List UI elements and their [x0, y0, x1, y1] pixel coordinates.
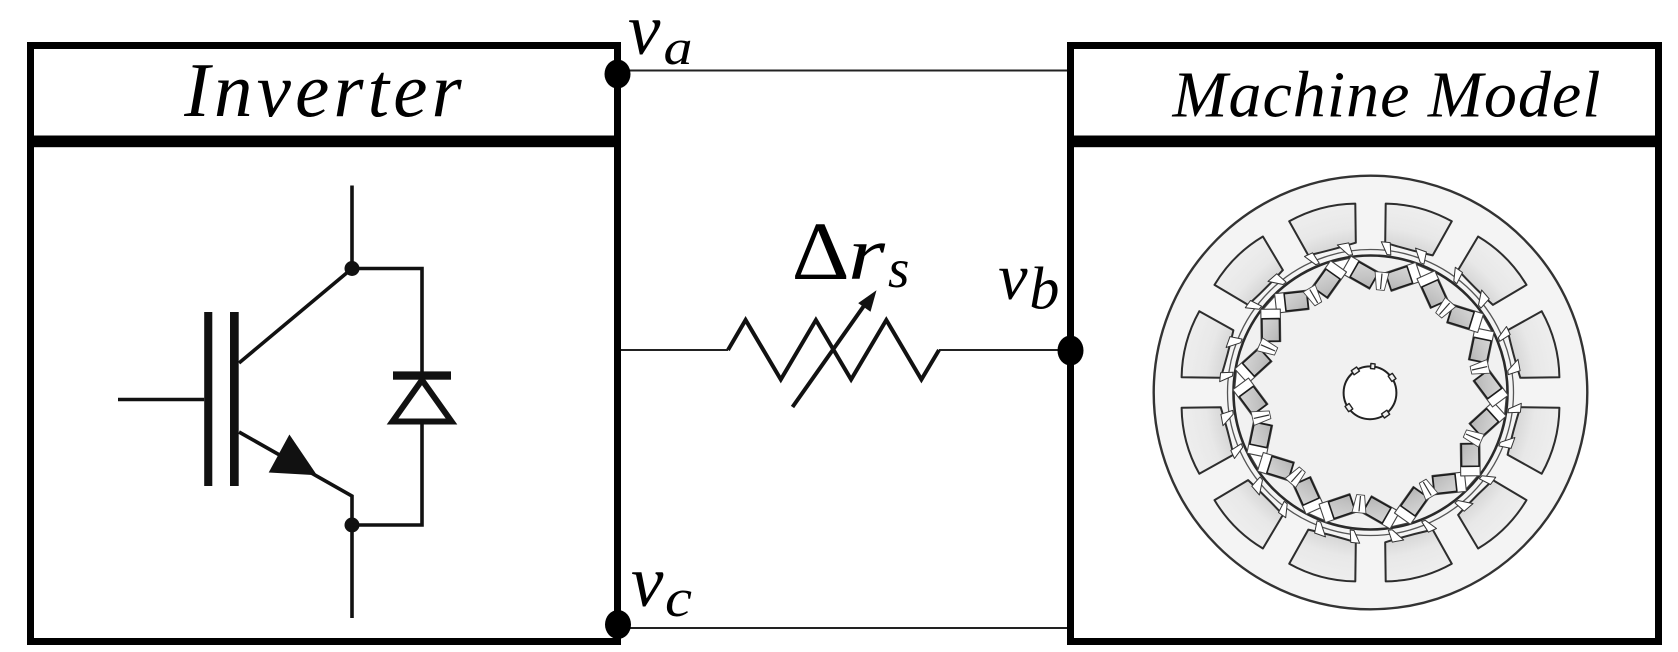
IGBT collector diagonal: [239, 269, 352, 364]
rotor body: [1234, 256, 1508, 530]
stator slots (12 winding slots): [1182, 204, 1560, 582]
inter-pole barriers: [1235, 258, 1506, 526]
node v_c: [605, 610, 631, 639]
machine model block box: [1071, 46, 1659, 642]
svg-text:v: v: [631, 541, 664, 622]
svg-text:b: b: [1029, 256, 1059, 322]
wire v_b right segment: [939, 349, 1067, 351]
svg-text:v: v: [628, 0, 661, 70]
resistor variable arrow: [793, 290, 877, 407]
IGBT gate bar (left): [204, 312, 212, 486]
label Delta r_s: [792, 205, 910, 299]
inverter header separator: [27, 136, 621, 148]
wire v_a (phase a): [621, 70, 1067, 72]
stator bore: [1228, 250, 1514, 536]
label v_a: [628, 0, 693, 75]
machine header separator: [1067, 136, 1662, 148]
svg-text:r: r: [848, 213, 886, 296]
IGBT emitter arrow: [269, 435, 317, 476]
IGBT emitter diagonal: [239, 432, 352, 525]
stator core outer lamination: [1154, 176, 1588, 610]
node v_a: [605, 60, 631, 89]
resistor Delta r_s zigzag: [728, 320, 939, 380]
diode D1 anode lead: [352, 421, 422, 525]
svg-text:v: v: [998, 241, 1028, 314]
label v_c: [631, 541, 692, 628]
rotor flux-barrier pockets: [1233, 256, 1508, 529]
diode D1 cathode bar: [393, 371, 451, 379]
inverter block box: [31, 46, 618, 642]
IGBT gate lead: [118, 398, 204, 402]
node v_b: [1058, 336, 1084, 366]
wire to diode top: [352, 269, 422, 373]
svg-text:Δ: Δ: [792, 205, 850, 297]
shaft bore with keyway notches: [1344, 364, 1397, 420]
IGBT emitter lead: [350, 525, 354, 618]
wire v_c (phase c): [621, 627, 1067, 629]
svg-text:c: c: [665, 568, 692, 628]
svg-text:a: a: [664, 19, 693, 75]
diode D1 triangle: [393, 380, 452, 422]
IGBT emitter junction dot: [345, 518, 360, 533]
rotor magnets (10 pole pairs): [1239, 262, 1501, 523]
svg-text:s: s: [888, 238, 909, 299]
pole-axis barriers: [1251, 272, 1490, 514]
stator slot openings: [1220, 242, 1522, 544]
wire v_b left segment: [621, 349, 728, 351]
label v_b: [998, 241, 1059, 322]
IGBT collector junction dot: [345, 261, 360, 276]
svg-text:Machine Model: Machine Model: [1171, 59, 1601, 132]
IGBT channel bar (right): [230, 312, 239, 486]
svg-text:Inverter: Inverter: [183, 47, 466, 133]
IGBT Q1 collector lead: [350, 186, 354, 269]
